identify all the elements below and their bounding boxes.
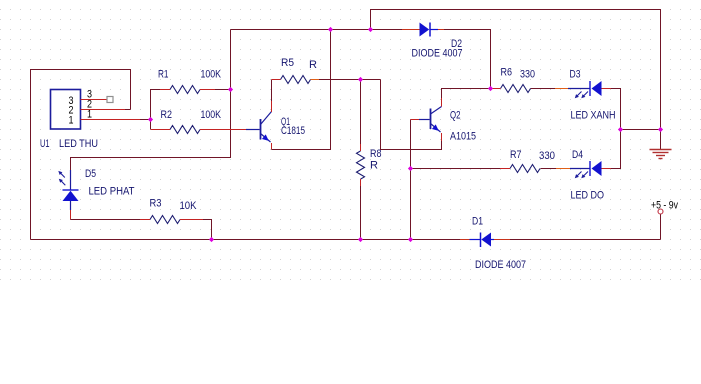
svg-text:R3: R3	[150, 198, 162, 210]
svg-text:U1: U1	[40, 138, 50, 150]
junction node ground	[658, 127, 663, 132]
svg-text:R6: R6	[501, 67, 513, 79]
wire D3 right down to D4 right	[611, 89, 621, 169]
wire topmost y9 and right rail	[371, 10, 661, 130]
wire Q2 base down to R7 and bottom rail	[410, 120, 412, 240]
resistor R1	[160, 86, 215, 94]
svg-text:1: 1	[87, 109, 92, 121]
connector U1 LED THU	[51, 90, 141, 130]
svg-text:R8: R8	[370, 148, 382, 160]
wire top y29 run to D2 and down to R6 junction	[231, 30, 491, 89]
junction node R3 bottom	[209, 237, 214, 242]
wire power stem	[660, 214, 662, 240]
junction node LED column	[618, 127, 623, 132]
LED D5	[58, 170, 78, 219]
svg-text:D1: D1	[472, 216, 483, 228]
svg-text:R5: R5	[281, 57, 294, 69]
resistor R7	[500, 165, 570, 173]
junction node x330 top	[328, 27, 333, 32]
transistor Q2 A1015	[411, 98, 442, 141]
power terminal +5 - 9v	[658, 209, 663, 214]
wire vertical x230 down to LED PHAT branch	[71, 30, 231, 171]
wire R8 top and bottom leads	[360, 80, 362, 240]
svg-text:100K: 100K	[201, 109, 222, 121]
wire R5 right to x380	[319, 79, 381, 81]
svg-text:R2: R2	[161, 109, 173, 121]
junction node R8 top	[358, 77, 363, 82]
svg-text:C1815: C1815	[281, 125, 305, 137]
wire bottom rail	[31, 239, 661, 241]
svg-text:330: 330	[520, 69, 535, 81]
svg-text:Q2: Q2	[450, 110, 461, 122]
svg-text:R: R	[370, 160, 378, 172]
wire left loop from U1 pin2 up-left-down to bottom rail	[31, 70, 131, 240]
svg-text:D3: D3	[570, 69, 581, 81]
svg-text:D4: D4	[572, 149, 583, 161]
svg-text:LED PHAT: LED PHAT	[89, 186, 135, 198]
resistor R2	[151, 126, 246, 134]
svg-text:R1: R1	[158, 69, 169, 81]
svg-text:DIODE 4007: DIODE 4007	[412, 48, 463, 60]
svg-text:A1015: A1015	[450, 131, 476, 143]
svg-text:R7: R7	[510, 149, 522, 161]
diode D1	[460, 233, 510, 248]
junction node Q2 base bottom	[408, 237, 413, 242]
junction node at pin1/R1/R2	[148, 117, 153, 122]
svg-text:100K: 100K	[201, 69, 222, 81]
resistor R8	[357, 144, 365, 186]
LED D4	[570, 161, 611, 178]
resistor R5	[272, 76, 320, 84]
wire Q1 collector to R5	[271, 80, 273, 102]
wire R6 to D3	[531, 88, 556, 90]
junction node R7 left	[408, 166, 413, 171]
svg-text:R: R	[309, 59, 317, 71]
svg-text:D5: D5	[85, 168, 96, 180]
svg-text:LED DO: LED DO	[571, 190, 605, 202]
svg-text:DIODE 4007: DIODE 4007	[475, 259, 526, 271]
wire pin1 to junction	[140, 119, 151, 121]
unconnected pin 3 terminal square	[107, 97, 113, 103]
wire R7 line from Q2 base rail	[411, 168, 557, 170]
wire ground branch	[621, 129, 661, 131]
junction node R1 right	[228, 87, 233, 92]
transistor Q1 C1815	[246, 101, 272, 149]
svg-text:LED XANH: LED XANH	[571, 110, 616, 122]
junction node D2/R6	[488, 86, 493, 91]
svg-text:+5 - 9v: +5 - 9v	[651, 200, 678, 212]
svg-text:1: 1	[69, 115, 74, 127]
LED D3	[568, 81, 611, 98]
wire R2 branch	[150, 120, 152, 130]
wire D5 bottom through R3 to bottom rail	[71, 210, 212, 240]
junction node R8 bottom	[358, 237, 363, 242]
wire Q2 collector up to R6 line	[442, 89, 491, 99]
svg-text:330: 330	[539, 150, 555, 162]
junction node x370 top	[368, 27, 373, 32]
diode D2	[402, 23, 444, 37]
wire Q1 emitter loop up to y29	[272, 30, 331, 150]
svg-text:LED THU: LED THU	[59, 138, 98, 150]
svg-text:10K: 10K	[180, 200, 198, 212]
ground symbol	[650, 130, 672, 159]
resistor R6	[491, 85, 569, 93]
resistor R3	[140, 216, 203, 224]
wire R1 branch vertical and leads	[151, 90, 231, 120]
wire x380 down to Q2 emitter	[381, 80, 442, 150]
